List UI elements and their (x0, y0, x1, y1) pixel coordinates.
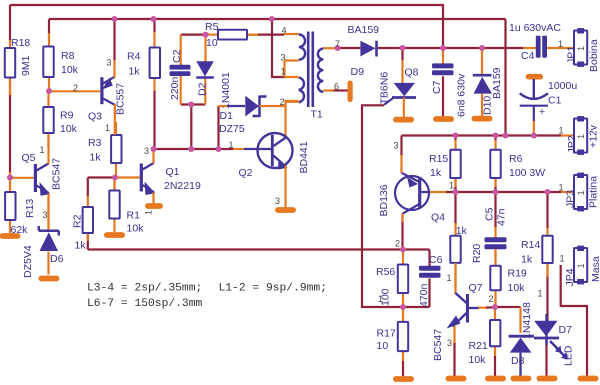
junction rail19 Q3 (112, 16, 118, 22)
ground R21 (485, 376, 506, 382)
resistor R14 (521, 228, 553, 277)
wire Q3 emitter riser (113, 19, 115, 61)
transistor Q7 (432, 263, 483, 361)
junction T1 pin7 (335, 45, 341, 51)
wire rail19 to R8 (48, 19, 50, 34)
wire R2 bottom (87, 233, 89, 250)
capacitor C1 (520, 74, 578, 121)
junction R56 top (400, 247, 406, 253)
svg-text:1: 1 (449, 181, 454, 191)
wire D8 top (519, 307, 521, 333)
svg-text:3: 3 (107, 58, 112, 68)
junction R15 top (453, 133, 459, 139)
resistor R15 (429, 140, 461, 187)
svg-text:R1: R1 (127, 210, 141, 222)
svg-text:R56: R56 (376, 266, 395, 278)
svg-text:L1-2 = 9sp/.9mm;: L1-2 = 9sp/.9mm; (219, 283, 327, 295)
svg-text:470n: 470n (418, 283, 430, 307)
wire C4 right pin to JP1 (545, 47, 574, 49)
resistor R18 (5, 37, 32, 95)
svg-text:BC547: BC547 (432, 329, 444, 361)
svg-text:10k: 10k (127, 223, 145, 235)
wire T1 pin6 (333, 89, 348, 91)
svg-text:LED: LED (563, 345, 575, 366)
junction rail19 T1 (269, 16, 275, 22)
svg-text:R13: R13 (24, 199, 36, 218)
connector JP1 (574, 28, 587, 67)
ground Q7 (446, 376, 467, 382)
transistor Q3 (49, 60, 127, 135)
wire C2D2 drop (190, 105, 192, 150)
capacitor C2 (169, 35, 191, 105)
svg-text:L3-4 = 2sp/.35mm;: L3-4 = 2sp/.35mm; (87, 283, 202, 295)
svg-text:C5: C5 (484, 207, 496, 221)
transistor Q4 (378, 155, 445, 224)
wire Q8 gate run (362, 105, 403, 307)
svg-text:R21: R21 (469, 340, 488, 352)
svg-text:+12v: +12v (588, 124, 600, 148)
ground Q2 (275, 207, 296, 213)
wire rail y19 (49, 18, 506, 20)
wire C1 bottom (533, 121, 535, 136)
wire JP2 pin (561, 134, 574, 136)
wire R6 top (494, 136, 496, 142)
svg-text:C6: C6 (429, 254, 443, 266)
wire R20 riser (454, 192, 456, 224)
svg-text:C7: C7 (431, 80, 443, 94)
svg-text:3: 3 (275, 196, 280, 206)
wire R21 to ground (494, 355, 496, 377)
svg-text:R8: R8 (61, 50, 75, 62)
svg-text:1k: 1k (456, 225, 468, 237)
wire Q7 base to node (477, 307, 486, 309)
wire rail48 a (403, 47, 444, 49)
wire T1 pin2 to Q2 collector (286, 101, 299, 138)
svg-text:3: 3 (43, 210, 48, 220)
svg-text:2: 2 (280, 97, 285, 107)
capacitor C4 (509, 22, 561, 62)
junction R56 bottom (400, 304, 406, 310)
junction R15 bottom (453, 189, 459, 195)
svg-text:R18: R18 (11, 37, 30, 49)
svg-text:R20: R20 (471, 244, 483, 263)
svg-text:10k: 10k (61, 64, 79, 76)
resistor R3 (88, 122, 122, 177)
resistor R9 (43, 91, 77, 147)
wire Q1 base pin (115, 176, 140, 178)
junction base rail (188, 146, 194, 152)
svg-text:10: 10 (377, 340, 389, 352)
svg-text:1: 1 (40, 145, 45, 155)
resistor R2 (72, 196, 94, 252)
junction rail19 R4 (151, 16, 157, 22)
resistor R4 (127, 32, 160, 91)
svg-text:R15: R15 (429, 153, 448, 165)
wire emitter rail y249 (88, 248, 430, 250)
wire D1 drop (217, 106, 219, 149)
wire Q7 base node to D8 (495, 306, 521, 308)
svg-text:1: 1 (576, 190, 586, 195)
svg-text:1: 1 (538, 289, 543, 299)
transformer T1 primary top coil (284, 34, 305, 61)
ground R17 (393, 376, 414, 382)
svg-text:R17: R17 (377, 328, 396, 340)
svg-text:D9: D9 (351, 66, 365, 78)
svg-text:JP1: JP1 (566, 46, 578, 64)
svg-text:DZ5V4: DZ5V4 (22, 245, 34, 278)
svg-text:1N4001: 1N4001 (220, 72, 232, 109)
svg-text:220n: 220n (169, 76, 181, 100)
wire C2 bottom link (181, 103, 206, 105)
wire T1 center tap vertical (272, 19, 285, 77)
svg-text:DZ75: DZ75 (219, 123, 245, 135)
wire D8 to ground (519, 355, 521, 377)
resistor R13 (5, 172, 36, 236)
junction node B (112, 175, 118, 181)
svg-text:1N4148: 1N4148 (521, 302, 533, 339)
diode D10 (473, 48, 503, 116)
svg-text:1: 1 (105, 123, 110, 133)
svg-text:C4: C4 (521, 50, 535, 62)
wire node A to node B (88, 176, 115, 178)
wire R18 bottom to node A (9, 78, 11, 173)
wire D7 to ground (545, 339, 547, 377)
connector JP2 (574, 116, 587, 155)
wire C5 drop (494, 192, 496, 228)
junction D10 top (479, 45, 485, 51)
svg-text:+: + (539, 106, 545, 118)
wire Q2 base pin (233, 148, 245, 150)
transistor Q5 (10, 136, 63, 230)
transformer T1 core (308, 32, 313, 108)
junction R6 bottom (493, 189, 499, 195)
svg-text:2: 2 (489, 294, 494, 304)
svg-text:1: 1 (144, 210, 154, 215)
svg-text:3: 3 (144, 146, 149, 156)
transistor Q2 (239, 133, 311, 208)
svg-text:Q4: Q4 (431, 212, 445, 224)
svg-text:3: 3 (447, 338, 452, 348)
wire T1 pin3-pin1 tie (283, 61, 285, 77)
transistor Q1 (140, 149, 201, 203)
resistor R17 (377, 307, 409, 377)
svg-text:1k: 1k (90, 152, 102, 164)
svg-text:1k: 1k (129, 66, 141, 78)
wire Q4 emitter riser (400, 136, 402, 157)
ground JP4 (578, 376, 599, 382)
wire rail48 to C4 (482, 47, 523, 49)
svg-text:Q2: Q2 (239, 167, 253, 179)
resistor R8 (43, 33, 78, 92)
junction C2 D2 bottom (188, 102, 194, 108)
resistor R1 (109, 178, 144, 235)
diode D1 (219, 96, 272, 136)
wire rail +12V y135 (402, 134, 562, 136)
svg-text:R9: R9 (60, 110, 74, 122)
svg-text:Q5: Q5 (22, 152, 36, 164)
wire R4 bottom drop (153, 90, 155, 149)
svg-text:1: 1 (576, 46, 586, 51)
svg-text:BD441: BD441 (298, 141, 310, 173)
wire R2 top (87, 178, 89, 198)
resistor R20 (450, 223, 483, 288)
svg-text:7: 7 (335, 39, 340, 49)
svg-text:D8: D8 (511, 355, 525, 367)
wire rail48 b (443, 47, 482, 49)
svg-text:D7: D7 (559, 324, 573, 336)
svg-text:R14: R14 (521, 239, 540, 251)
svg-text:Q3: Q3 (88, 111, 102, 123)
wire D1 cathode link (271, 105, 286, 107)
diode D6 (22, 195, 64, 278)
transformer T1 secondary coil (311, 48, 338, 120)
svg-text:Masa: Masa (590, 256, 600, 282)
wire JP4 run (561, 265, 587, 377)
junction R14 top (545, 189, 551, 195)
diode D7 (534, 314, 575, 366)
diode D2 (196, 35, 232, 109)
junction C7 top (440, 45, 446, 51)
junction node A (7, 175, 13, 181)
resistor R5 (205, 21, 258, 49)
svg-text:1: 1 (229, 140, 234, 150)
wire C6 top drop (428, 250, 430, 267)
capacitor C5 (484, 207, 508, 258)
connector JP3 (574, 173, 587, 212)
wire top rail (10, 5, 443, 48)
wire R15 top (454, 136, 456, 142)
junction Q1 collector (151, 146, 157, 152)
wire C4 left pin (523, 47, 536, 49)
wire C7 drop (442, 76, 444, 116)
wire JP3 pin (561, 191, 574, 193)
wire Q7 base to node b (486, 306, 495, 309)
svg-text:1: 1 (281, 67, 286, 77)
svg-text:BC557: BC557 (115, 83, 127, 115)
resistor R56 (376, 250, 408, 308)
wire Q7 emitter to ground (453, 342, 455, 377)
transistor Q8 (379, 60, 419, 117)
svg-text:1k: 1k (75, 240, 87, 252)
svg-text:T1: T1 (311, 109, 323, 121)
capacitor C7 (431, 48, 468, 117)
svg-text:9M1: 9M1 (20, 55, 32, 76)
wire right vertical x503 (504, 19, 506, 136)
svg-text:1: 1 (378, 294, 383, 304)
junction Q8 top (400, 45, 406, 51)
svg-text:JP4: JP4 (564, 268, 576, 286)
diode D8 (509, 302, 534, 376)
svg-text:R2: R2 (72, 214, 84, 228)
svg-text:D6: D6 (50, 253, 64, 265)
svg-text:1: 1 (576, 263, 586, 268)
svg-text:2: 2 (73, 83, 78, 93)
svg-text:JP3: JP3 (565, 190, 577, 208)
wire base rail y148 (154, 148, 235, 150)
svg-text:Q1: Q1 (166, 166, 180, 178)
junction rail x503 (503, 133, 509, 139)
svg-text:R5: R5 (205, 21, 219, 33)
wire T1 pin7 to D9 (338, 47, 361, 49)
resistor R19 (490, 250, 527, 307)
svg-text:100 3W: 100 3W (509, 167, 545, 179)
ground D10 (472, 116, 493, 122)
wire R14 drop (546, 192, 548, 229)
wire Q8 top (401, 48, 403, 61)
svg-text:Q8: Q8 (405, 67, 419, 79)
wire Q4 collector drop (401, 214, 403, 250)
ground Q1 (145, 203, 163, 209)
svg-text:10: 10 (206, 37, 218, 49)
resistor R6 (490, 140, 545, 187)
svg-text:1: 1 (558, 39, 563, 49)
svg-text:10k: 10k (508, 282, 526, 294)
svg-text:TB6N6: TB6N6 (379, 72, 391, 105)
svg-text:1k: 1k (521, 254, 533, 266)
ground D7 (537, 376, 558, 382)
svg-text:R6: R6 (509, 153, 523, 165)
svg-text:R19: R19 (508, 268, 527, 280)
wire R6 bottom (494, 178, 496, 192)
transformer T1 primary bottom coil (285, 77, 304, 102)
wire D9 to Q8 node (378, 47, 403, 49)
ground R13 (0, 233, 21, 239)
svg-text:4: 4 (282, 26, 287, 36)
wire C2 top link (181, 33, 207, 35)
wire C6 bottom drop (428, 279, 430, 308)
svg-text:Bobina: Bobina (588, 39, 600, 72)
svg-text:10k: 10k (469, 354, 487, 366)
svg-text:R3: R3 (88, 137, 102, 149)
svg-text:6n8 630v: 6n8 630v (456, 73, 468, 117)
junction D1 base rail (216, 146, 222, 152)
svg-text:BA159: BA159 (491, 67, 503, 99)
junction R5 D2 (203, 32, 209, 38)
svg-text:1: 1 (559, 183, 564, 193)
wire R1 top (113, 178, 115, 192)
wire R15 bottom (454, 178, 456, 192)
svg-text:6: 6 (334, 82, 339, 92)
wire R56 rail to C6 (403, 306, 430, 308)
svg-text:2N2219: 2N2219 (164, 180, 201, 192)
wire Q4 base pin (429, 191, 446, 193)
connector JP4 (574, 246, 587, 285)
capacitor C6 (418, 254, 443, 307)
svg-text:1: 1 (447, 273, 452, 283)
svg-text:C1: C1 (548, 95, 562, 107)
svg-text:1u 630vAC: 1u 630vAC (509, 22, 561, 34)
svg-text:3: 3 (281, 53, 286, 63)
svg-text:JP2: JP2 (566, 135, 578, 153)
wire R5 right to T1 pin4 (247, 33, 284, 35)
svg-text:BC547: BC547 (51, 158, 63, 190)
diode D9 (348, 24, 380, 78)
wire base rail y192 (446, 191, 561, 193)
svg-text:2: 2 (395, 239, 400, 249)
wire R4 top riser (153, 19, 155, 33)
svg-text:1000u: 1000u (548, 80, 577, 92)
pad T1 pin6 (348, 81, 353, 103)
wire left vertical to R18 (9, 5, 11, 40)
ground R1 (104, 232, 125, 238)
svg-text:BA159: BA159 (348, 24, 380, 36)
junction R8 R9 Q3 base (46, 88, 52, 94)
svg-text:BD136: BD136 (378, 184, 390, 216)
svg-text:Platina: Platina (588, 176, 600, 208)
ground C7 (433, 116, 454, 122)
ground D8 (511, 376, 532, 382)
svg-text:R4: R4 (127, 51, 141, 63)
ground D6 (38, 276, 59, 282)
svg-text:1k: 1k (430, 167, 442, 179)
svg-text:C2: C2 (171, 49, 183, 63)
svg-text:1: 1 (560, 254, 565, 264)
svg-text:10k: 10k (60, 123, 78, 135)
svg-text:D1: D1 (220, 110, 234, 122)
svg-text:D2: D2 (197, 82, 209, 96)
svg-text:47n: 47n (496, 208, 508, 226)
svg-text:L6-7 = 150sp/.3mm: L6-7 = 150sp/.3mm (87, 298, 202, 310)
junction Q7 base (492, 304, 498, 310)
junction R6 top (493, 133, 499, 139)
junction C1 (531, 133, 537, 139)
svg-text:1: 1 (559, 126, 564, 136)
svg-text:3: 3 (394, 141, 399, 151)
svg-text:Q7: Q7 (469, 282, 483, 294)
wire R14 to D7 (546, 263, 548, 322)
ground Q8 (393, 117, 414, 123)
resistor R21 (469, 307, 501, 366)
